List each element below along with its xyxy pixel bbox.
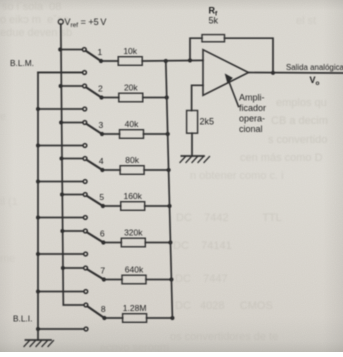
junction summing bus row 3 [166,132,170,136]
Vref terminal [58,19,63,24]
junction Vref bus row 3 [59,121,63,125]
junction ground bus row 3 [36,144,40,148]
feedback wire left [190,38,202,60]
junction ground bus row 6 [36,252,40,256]
wire resistor R8 to summing bus [147,317,173,319]
junction summing bus row 6 [168,240,172,244]
wire resistor R3 to summing bus [144,133,168,135]
wire resistor R2 to summing bus [143,97,167,99]
output wire [249,72,343,75]
svg-text:5k: 5k [209,16,219,26]
feedback wire right [225,38,274,73]
wire switch 2 lower contact [38,108,83,110]
switch S4 [83,157,104,184]
svg-text:20k: 20k [124,83,138,93]
resistor Rf 5k [202,6,225,42]
junction Vref bus row 6 [60,229,64,233]
svg-text:CB a decim: CB a decim [271,115,328,127]
wire switch 5 to resistor R5 [103,205,121,207]
wire switch 1 upper contact [60,49,82,51]
svg-text:opera-: opera- [239,114,265,124]
svg-text:n obtener como c. i: n obtener como c. i [190,170,284,182]
svg-text:40k: 40k [125,119,139,129]
wire switch 7 lower contact [38,291,84,293]
wire switch 3 lower contact [38,145,83,147]
ground bus wire [38,72,83,340]
svg-text:320k: 320k [124,228,143,238]
switch S3 [83,121,104,148]
junction summing bus row 4 [167,168,171,172]
switch S5 [83,193,105,220]
junction ground bus row 4 [36,180,40,184]
resistor R2 20k [119,83,143,102]
annotation arrow [226,75,239,107]
svg-text:10k: 10k [123,46,137,56]
resistor R6 320k [121,228,145,247]
wire switch 4 lower contact [38,181,83,183]
wire non-inverting input [192,85,203,110]
resistor R9 2k5 [187,111,214,134]
wire switch 2 upper contact [61,85,83,87]
wire switch 6 upper contact [62,230,83,232]
op-amp label [239,93,266,135]
svg-text:6: 6 [100,228,105,238]
svg-text:emplos qu: emplos qu [276,97,327,109]
Vref bus wire [61,24,84,305]
junction ground bus row 5 [36,216,40,220]
svg-text:80k: 80k [125,155,139,165]
wire switch 8 lower contact [38,328,84,330]
svg-text:640k: 640k [125,265,144,275]
svg-text:ecnvo seroqm: ecnvo seroqm [100,342,169,352]
svg-text:el st: el st [296,15,316,27]
junction summing bus row 8 [170,316,174,320]
junction summing bus row 1 [164,59,168,63]
switch S6 [84,229,106,256]
wire resistor R7 to summing bus [146,279,171,281]
svg-text:e: e [0,111,6,123]
svg-text:8: 8 [101,304,106,314]
resistor R4 80k [120,155,144,174]
junction Vref bus row 1 [58,48,62,52]
switch S7 [84,266,106,293]
junction output node [271,71,275,75]
junction ground bus row 8 [36,327,40,331]
switch S8 [84,303,107,331]
svg-text:ficador: ficador [239,103,266,113]
svg-text:4: 4 [99,156,104,166]
wire switch 6 to resistor R6 [103,242,121,244]
wire resistor R6 to summing bus [145,242,170,244]
wire switch 8 to resistor R8 [104,317,122,319]
svg-text:DC 7447: DC 7447 [175,273,228,285]
wire switch 4 upper contact [62,158,84,160]
ground (left bus) [26,339,52,341]
svg-text:7: 7 [100,265,105,275]
wire switch 7 to resistor R7 [104,279,122,281]
svg-text:5: 5 [99,192,104,202]
svg-text:DC 7442 TTL: DC 7442 TTL [176,212,282,224]
resistor R7 640k [122,265,146,284]
wire switch 1 lower contact [38,72,83,74]
junction summing bus row 5 [167,204,171,208]
junction summing bus row 7 [169,277,173,281]
svg-text:Ampli-: Ampli- [239,93,265,103]
wire resistor R4 to summing bus [144,169,169,171]
svg-text:3: 3 [99,120,104,130]
svg-text:1: 1 [98,47,103,57]
wire switch 3 to resistor R3 [102,133,120,135]
svg-text:DC 74141: DC 74141 [173,240,232,252]
svg-text:B.L.M.: B.L.M. [10,58,34,68]
resistor R3 40k [120,119,144,138]
svg-text:160k: 160k [123,191,142,201]
svg-text:B.L.I.: B.L.I. [13,314,32,324]
junction Vref bus row 4 [60,157,64,161]
ground (op-amp input) [180,156,210,163]
svg-text:Salida analógica: Salida analógica [286,63,343,72]
summing bus wire [166,61,173,318]
svg-text:cen más como D: cen más como D [240,152,323,164]
wire switch 5 upper contact [62,194,83,196]
svg-text:il (1: il (1 [0,196,18,208]
op-amp U1 [203,50,249,96]
wire 2k5 to ground [191,133,193,156]
junction Vref bus row 2 [59,84,63,88]
wire switch 3 upper contact [61,122,83,124]
resistor R8 1.28M [123,303,147,322]
svg-text:2k5: 2k5 [200,117,215,127]
svg-text:DC 4028 CMOS: DC 4028 CMOS [175,300,273,312]
junction Vref bus row 7 [61,266,65,270]
wire switch 1 to resistor R1 [101,60,118,62]
resistor R1 10k [118,46,142,65]
svg-text:me: me [0,253,15,265]
wire resistor R5 to summing bus [145,205,170,207]
junction summing bus row 2 [165,95,169,99]
junction Vref bus row 5 [60,193,64,197]
svg-text:1.28M: 1.28M [123,303,147,313]
wire switch 4 to resistor R4 [102,169,120,171]
wire switch 6 lower contact [38,253,84,255]
wire switch 5 lower contact [38,217,83,219]
wire resistor R1 to summing bus [142,59,203,62]
junction feedback node [188,58,192,62]
svg-text:2: 2 [98,83,103,93]
svg-text:cional: cional [239,124,263,134]
switch S1 [82,48,103,75]
junction ground bus row 7 [36,290,40,294]
switch S2 [83,84,104,111]
wire switch 7 upper contact [63,267,84,269]
svg-text:so iˈsola 08: so iˈsola 08 [2,1,61,13]
junction ground bus row 2 [36,107,40,111]
svg-text:os convertidores de te: os convertidores de te [170,331,278,343]
wire switch 2 to resistor R2 [102,97,119,99]
svg-text:s convertido: s convertido [268,134,327,146]
resistor R5 160k [121,191,145,210]
